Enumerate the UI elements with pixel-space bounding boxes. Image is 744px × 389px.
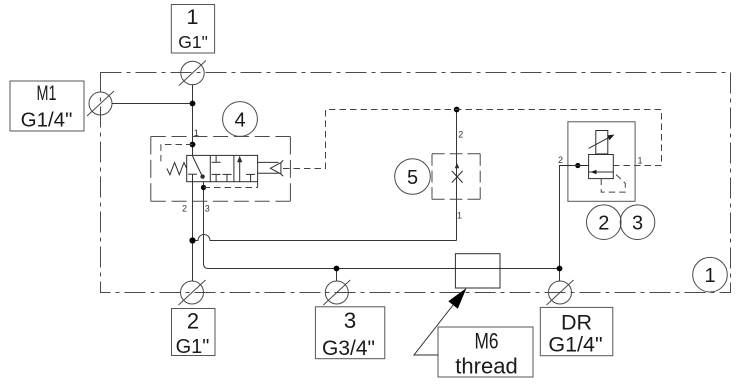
svg-text:thread: thread bbox=[455, 354, 517, 379]
svg-text:2: 2 bbox=[182, 204, 187, 214]
svg-text:2: 2 bbox=[458, 130, 463, 140]
svg-text:1: 1 bbox=[187, 5, 199, 29]
svg-text:5: 5 bbox=[407, 167, 418, 189]
svg-text:G3/4": G3/4" bbox=[322, 337, 375, 360]
svg-text:G1": G1" bbox=[178, 32, 208, 52]
svg-text:3: 3 bbox=[344, 308, 357, 333]
svg-text:3: 3 bbox=[632, 213, 643, 235]
svg-text:2: 2 bbox=[598, 213, 609, 235]
svg-text:4: 4 bbox=[234, 110, 245, 132]
svg-text:G1/4": G1/4" bbox=[548, 333, 602, 357]
svg-text:DR: DR bbox=[561, 310, 592, 334]
svg-text:2: 2 bbox=[558, 155, 563, 165]
svg-text:G1/4": G1/4" bbox=[21, 109, 73, 132]
svg-text:1: 1 bbox=[637, 156, 642, 166]
svg-text:1: 1 bbox=[457, 211, 462, 221]
svg-text:3: 3 bbox=[205, 204, 210, 214]
svg-text:2: 2 bbox=[187, 309, 199, 334]
svg-text:M1: M1 bbox=[37, 82, 57, 105]
svg-text:1: 1 bbox=[704, 265, 715, 287]
svg-text:G1": G1" bbox=[176, 336, 210, 358]
svg-text:M6: M6 bbox=[475, 329, 499, 354]
svg-text:1: 1 bbox=[194, 128, 199, 138]
